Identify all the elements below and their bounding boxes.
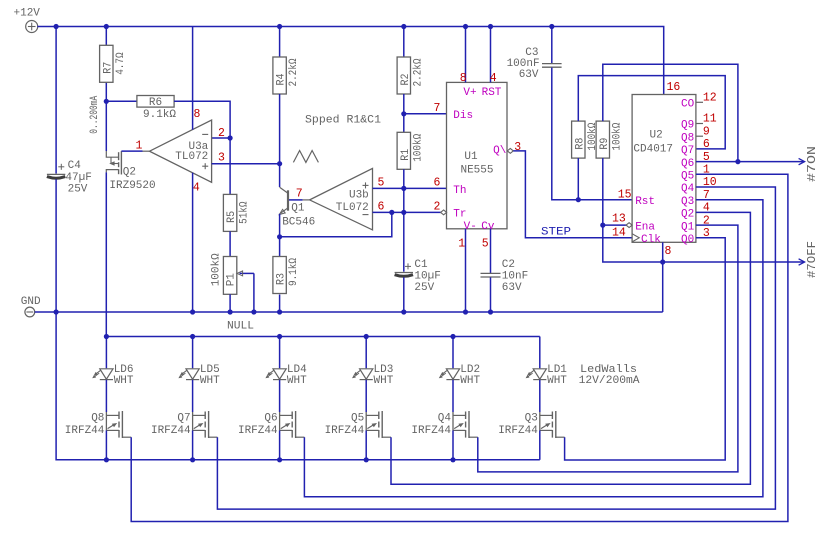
svg-text:2.2kΩ: 2.2kΩ bbox=[288, 58, 300, 86]
resistor R2 2.2k bbox=[403, 27, 405, 58]
wire U3a pin8 V+ from rail bbox=[192, 27, 194, 130]
wire R8 top to CD4017 Q7 bbox=[578, 76, 725, 149]
svg-text:CO: CO bbox=[681, 99, 695, 111]
svg-text:1: 1 bbox=[458, 238, 465, 251]
svg-text:Q3: Q3 bbox=[525, 412, 538, 424]
transistor Q4 IRFZ44 N-MOSFET bbox=[452, 380, 454, 412]
junction node Ena / R9 bbox=[600, 223, 605, 228]
arrow head 7OFF bbox=[799, 259, 805, 265]
svg-text:R7: R7 bbox=[102, 62, 114, 74]
svg-text:9.1kΩ: 9.1kΩ bbox=[288, 258, 300, 286]
svg-text:U3b: U3b bbox=[349, 190, 369, 202]
wire R9 top to CD4017 Q6 bbox=[603, 64, 738, 161]
transistor Q5 IRFZ44 N-MOSFET bbox=[365, 380, 367, 412]
junction dots on +12V rail bbox=[54, 24, 59, 29]
svg-text:WHT: WHT bbox=[287, 375, 307, 387]
inverted pin diamond NE555 Tr bbox=[441, 210, 447, 215]
junction node Th / R1 / pin5 bbox=[401, 186, 406, 191]
svg-text:WHT: WHT bbox=[200, 375, 220, 387]
svg-text:C4: C4 bbox=[68, 160, 82, 172]
svg-text:+12V: +12V bbox=[14, 8, 41, 20]
svg-text:R3: R3 bbox=[276, 273, 288, 285]
svg-text:1: 1 bbox=[136, 140, 143, 153]
svg-text:Q0: Q0 bbox=[681, 234, 694, 246]
svg-text:Q9: Q9 bbox=[681, 120, 694, 132]
svg-text:Q7: Q7 bbox=[177, 412, 190, 424]
svg-text:15: 15 bbox=[618, 189, 632, 202]
svg-text:7: 7 bbox=[434, 102, 441, 115]
wire Q7 source to rail bbox=[192, 430, 194, 459]
svg-text:12: 12 bbox=[703, 92, 717, 105]
svg-text:47µF: 47µF bbox=[65, 172, 91, 184]
wire Q1 base to U3b output pin7 bbox=[289, 199, 303, 201]
wire U3a pin4 V- to GND rail bbox=[192, 173, 194, 312]
svg-text:IRZ9520: IRZ9520 bbox=[109, 180, 155, 192]
svg-text:R8: R8 bbox=[574, 138, 586, 150]
svg-text:100kΩ: 100kΩ bbox=[611, 122, 623, 150]
svg-text:9.1kΩ: 9.1kΩ bbox=[143, 109, 176, 121]
LED LD1 WHT bbox=[539, 337, 541, 369]
wire U3b pin6 to Tr node bbox=[373, 211, 442, 213]
resistor R9 100k bbox=[596, 121, 609, 158]
svg-text:Q6: Q6 bbox=[264, 412, 277, 424]
svg-text:U2: U2 bbox=[650, 129, 663, 141]
svg-text:100kΩ: 100kΩ bbox=[211, 253, 223, 286]
svg-text:R5: R5 bbox=[226, 211, 238, 223]
svg-text:Tr: Tr bbox=[453, 209, 466, 221]
LED LD2 WHT bbox=[452, 337, 454, 369]
capacitor C3 100nF 63V bbox=[551, 27, 553, 64]
svg-text:Q7: Q7 bbox=[681, 145, 694, 157]
svg-text:25V: 25V bbox=[414, 282, 434, 294]
stub pin CO unconnected bbox=[696, 101, 703, 103]
resistor R6 9.1k bbox=[106, 100, 137, 102]
svg-text:11: 11 bbox=[703, 113, 717, 126]
arrow head 7ON bbox=[799, 158, 805, 164]
svg-text:14: 14 bbox=[612, 227, 626, 240]
svg-text:IRFZ44: IRFZ44 bbox=[411, 425, 451, 437]
svg-text:R1: R1 bbox=[400, 148, 412, 160]
wire +12V top rail and CD4017 pin16 drop bbox=[37, 27, 663, 95]
wire Q6 source to rail bbox=[279, 430, 281, 459]
svg-text:Q8: Q8 bbox=[681, 132, 694, 144]
svg-text:CD4017: CD4017 bbox=[633, 144, 673, 156]
svg-text:6: 6 bbox=[703, 138, 710, 151]
svg-text:IRFZ44: IRFZ44 bbox=[325, 425, 365, 437]
resistor R8 100k bbox=[572, 121, 585, 158]
svg-text:5: 5 bbox=[482, 238, 489, 251]
svg-text:#7ON: #7ON bbox=[806, 146, 819, 182]
junction node Tr / C1 bbox=[401, 210, 406, 215]
svg-text:63V: 63V bbox=[519, 69, 539, 81]
svg-text:V+: V+ bbox=[463, 87, 476, 99]
transistor Q1 BC546 NPN bbox=[287, 190, 289, 210]
power flag +12V supply symbol bbox=[26, 21, 38, 33]
wire GND rail bbox=[35, 311, 663, 313]
svg-text:Q1: Q1 bbox=[681, 221, 695, 233]
wire U3b pin5 to Th node bbox=[373, 187, 447, 189]
resistor R3 9.1k bbox=[273, 257, 286, 294]
svg-text:R6: R6 bbox=[149, 97, 162, 109]
svg-text:Spped R1&C1: Spped R1&C1 bbox=[305, 115, 381, 127]
triangle waveform annotation bbox=[293, 151, 318, 163]
svg-text:IRFZ44: IRFZ44 bbox=[151, 425, 191, 437]
svg-text:6: 6 bbox=[434, 176, 441, 189]
svg-text:Q3: Q3 bbox=[681, 196, 694, 208]
wire CD4017 Q2 to Q5 gate bbox=[391, 212, 750, 484]
LED LD6 WHT bbox=[105, 337, 107, 369]
svg-text:2: 2 bbox=[434, 200, 441, 213]
junction dots on GND rail bbox=[54, 309, 59, 314]
wire Ena stub bbox=[603, 224, 627, 226]
svg-text:C1: C1 bbox=[414, 259, 428, 271]
junction node Dis / R2 / R1 bbox=[401, 111, 406, 116]
svg-text:63V: 63V bbox=[502, 282, 522, 294]
svg-text:2: 2 bbox=[218, 127, 225, 140]
wire 7OFF line from GND to arrow bbox=[663, 261, 805, 263]
svg-text:Th: Th bbox=[453, 185, 466, 197]
IC U2 CD4017 decade counter bbox=[632, 95, 696, 243]
svg-text:Q2: Q2 bbox=[123, 167, 136, 179]
wire Q8 source to rail bbox=[105, 430, 107, 459]
wire CD4017 Q0 to Q3 gate bbox=[565, 238, 726, 460]
wire R3 to GND rail bbox=[279, 295, 281, 313]
svg-text:5: 5 bbox=[377, 177, 384, 190]
wire CD4017 Q1 to Q4 gate bbox=[478, 225, 738, 472]
wire CD4017 pin8 to GND rail bbox=[662, 242, 664, 312]
svg-text:Q5: Q5 bbox=[681, 171, 694, 183]
junction node U3a pin3 / R4 / Q1 collector bbox=[277, 161, 282, 166]
transistor Q7 IRFZ44 N-MOSFET bbox=[192, 380, 194, 412]
wire C3 to Rst net bbox=[552, 68, 632, 200]
wire Q2 drain to LED rail bbox=[105, 172, 107, 336]
svg-text:R9: R9 bbox=[599, 138, 611, 150]
svg-text:IRFZ44: IRFZ44 bbox=[498, 425, 538, 437]
wire NE555 pin4 RST bbox=[490, 27, 492, 83]
svg-text:3: 3 bbox=[514, 141, 521, 154]
svg-text:Rst: Rst bbox=[635, 196, 655, 208]
wire NE555 pin8 V+ bbox=[465, 27, 467, 83]
LED LD4 WHT bbox=[279, 337, 281, 369]
svg-text:10nF: 10nF bbox=[502, 271, 528, 283]
svg-text:BC546: BC546 bbox=[282, 216, 315, 228]
svg-text:WHT: WHT bbox=[460, 375, 480, 387]
svg-text:IRFZ44: IRFZ44 bbox=[238, 425, 278, 437]
svg-text:U1: U1 bbox=[464, 151, 478, 163]
resistor R5 51k bbox=[229, 138, 231, 194]
svg-text:NULL: NULL bbox=[227, 321, 254, 333]
svg-text:Cv: Cv bbox=[481, 221, 495, 233]
wire Dis to NE555 bbox=[404, 113, 447, 115]
junction node R8 bottom / Rst bbox=[576, 197, 581, 202]
wire CD4017 Q3 to Q6 gate bbox=[304, 200, 763, 497]
inverted pin diamond CD4017 Ena bbox=[626, 223, 632, 228]
wire Q3 source to rail bbox=[539, 430, 541, 459]
svg-text:Clk: Clk bbox=[641, 234, 661, 246]
svg-text:51kΩ: 51kΩ bbox=[239, 201, 251, 224]
svg-text:25V: 25V bbox=[68, 184, 88, 196]
svg-text:Q5: Q5 bbox=[351, 412, 364, 424]
capacitor C4 47uF 25V electrolytic bbox=[55, 27, 57, 174]
wire LED anode rail bbox=[106, 336, 539, 338]
svg-text:8: 8 bbox=[460, 72, 467, 85]
ground GND supply symbol bbox=[25, 307, 35, 317]
svg-text:#7OFF: #7OFF bbox=[806, 241, 819, 278]
junction node R7-R6 bbox=[104, 99, 109, 104]
junction node R3 top / U3b feedback bbox=[277, 234, 282, 239]
wire R9 bottom to Ena and GND pin8 bbox=[603, 158, 663, 262]
LED LD5 WHT bbox=[192, 337, 194, 369]
resistor R4 2.2k bbox=[279, 27, 281, 58]
svg-text:STEP: STEP bbox=[541, 226, 571, 238]
svg-text:TL072: TL072 bbox=[175, 151, 208, 163]
stub pin Q9 unconnected bbox=[696, 123, 703, 125]
svg-text:Q4: Q4 bbox=[438, 412, 452, 424]
junction node pin8 / 7OFF line bbox=[660, 259, 665, 264]
svg-text:IRFZ44: IRFZ44 bbox=[65, 425, 105, 437]
svg-text:Q4: Q4 bbox=[681, 183, 695, 195]
wire P1 wiper bbox=[240, 272, 254, 274]
wire Q6 output to 7ON arrow bbox=[696, 161, 804, 163]
wire U3b feedback to R3 bbox=[280, 212, 392, 236]
svg-text:RST: RST bbox=[482, 87, 502, 99]
svg-text:8: 8 bbox=[193, 108, 200, 121]
svg-text:4: 4 bbox=[193, 182, 200, 195]
wire NE555 Q to CD4017 Clk STEP net bbox=[513, 151, 632, 238]
svg-text:12V/200mA: 12V/200mA bbox=[579, 375, 640, 387]
svg-text:7: 7 bbox=[296, 188, 303, 201]
wire R1 to Th-Tr tie bbox=[403, 169, 405, 212]
wire Q4 source to rail bbox=[452, 430, 454, 459]
IC U1 NE555 timer bbox=[447, 82, 508, 228]
op-amp U3b TL072 bbox=[310, 168, 373, 230]
svg-text:WHT: WHT bbox=[374, 375, 394, 387]
resistor R1 100k bbox=[403, 114, 405, 133]
svg-text:WHT: WHT bbox=[114, 375, 134, 387]
svg-text:NE555: NE555 bbox=[460, 165, 493, 177]
svg-text:16: 16 bbox=[667, 81, 681, 94]
svg-text:TL072: TL072 bbox=[336, 202, 369, 214]
wire Q5 source to rail bbox=[365, 430, 367, 459]
svg-text:4.7Ω: 4.7Ω bbox=[115, 52, 127, 75]
svg-text:Dis: Dis bbox=[453, 110, 473, 122]
wire Q1 emitter to R3 bbox=[279, 214, 281, 257]
svg-text:10µF: 10µF bbox=[414, 271, 440, 283]
clock symbol CD4017 Clk pin bbox=[632, 234, 639, 242]
svg-text:0..200mA: 0..200mA bbox=[89, 95, 101, 133]
svg-text:P1: P1 bbox=[225, 273, 237, 287]
svg-text:Q1: Q1 bbox=[291, 202, 305, 214]
svg-text:WHT: WHT bbox=[547, 375, 567, 387]
svg-text:Q\: Q\ bbox=[493, 145, 506, 157]
svg-text:3: 3 bbox=[218, 151, 225, 164]
capacitor C2 10nF 63V bbox=[490, 229, 492, 273]
svg-text:R4: R4 bbox=[276, 73, 288, 85]
wire CD4017 Q4 to Q7 gate bbox=[217, 187, 775, 509]
wire Q2 gate to U3a output pin1 bbox=[121, 150, 142, 152]
potentiometer P1 100k bbox=[223, 257, 236, 295]
svg-text:4: 4 bbox=[490, 72, 497, 85]
inverted pin diamond NE555 Q output bbox=[507, 149, 513, 154]
junction dots on source rail bbox=[104, 457, 109, 462]
transistor Q6 IRFZ44 N-MOSFET bbox=[279, 380, 281, 412]
svg-text:R2: R2 bbox=[400, 74, 412, 86]
LED LD3 WHT bbox=[365, 337, 367, 369]
junction dots on LED rail bbox=[104, 334, 109, 339]
svg-text:2.2kΩ: 2.2kΩ bbox=[412, 58, 424, 86]
svg-text:Ena: Ena bbox=[635, 221, 655, 233]
transistor Q2 IRZ9520 P-MOSFET bbox=[105, 101, 107, 151]
svg-text:GND: GND bbox=[21, 296, 41, 308]
junction node feedback split bbox=[389, 210, 394, 215]
wire CD4017 Q5 to Q8 gate bbox=[131, 174, 788, 521]
wire R2 to Dis bbox=[403, 94, 405, 114]
wire P1 bottom to GND bbox=[229, 294, 231, 312]
junction node Q6 / R9 lane bbox=[735, 159, 740, 164]
wire U3a pin3 to node bbox=[212, 163, 280, 165]
transistor Q8 IRFZ44 N-MOSFET bbox=[105, 380, 107, 412]
wire R4 to pin3 node and Q1 collector bbox=[279, 94, 281, 187]
transistor Q3 IRFZ44 N-MOSFET bbox=[539, 380, 541, 412]
wire R6 to U3a pin2 bbox=[174, 101, 230, 138]
svg-text:9: 9 bbox=[703, 125, 710, 138]
wire NE555 pin1 to GND bbox=[465, 229, 467, 312]
svg-text:8: 8 bbox=[665, 245, 672, 258]
junction node U3a pin2 bbox=[228, 135, 233, 140]
wire R5 to P1 bbox=[229, 231, 231, 256]
svg-text:100kΩ: 100kΩ bbox=[412, 133, 424, 161]
svg-text:13: 13 bbox=[612, 213, 626, 226]
resistor R7 4.7ohm bbox=[105, 27, 107, 46]
svg-text:Q8: Q8 bbox=[91, 412, 104, 424]
svg-text:C2: C2 bbox=[502, 259, 515, 271]
svg-text:Q6: Q6 bbox=[681, 158, 694, 170]
capacitor C1 10uF 25V electrolytic bbox=[403, 212, 405, 271]
svg-text:100kΩ: 100kΩ bbox=[587, 122, 599, 150]
op-amp U3a TL072 bbox=[150, 120, 212, 182]
svg-text:Q2: Q2 bbox=[681, 209, 694, 221]
wire GND to MOSFET source rail bbox=[56, 312, 540, 460]
stub pin Q8 unconnected bbox=[696, 135, 703, 137]
